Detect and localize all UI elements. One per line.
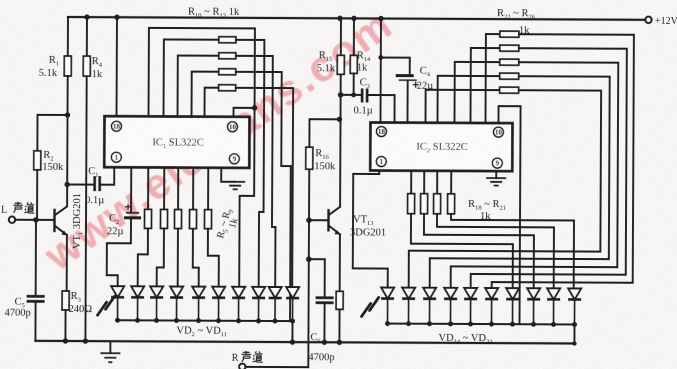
wire row D left xyxy=(192,72,219,117)
resistor R1 xyxy=(64,56,71,76)
LED VD23 xyxy=(568,288,581,299)
resistor R23 xyxy=(500,45,519,51)
node LED bus riser bottom xyxy=(290,339,295,344)
node LED bus junction xyxy=(290,319,295,324)
LED VD6 xyxy=(192,287,205,298)
node C6 bottom xyxy=(322,340,327,345)
wire R20 to LED xyxy=(437,214,554,289)
resistor R16 xyxy=(306,147,313,169)
wire R2 bottom to input xyxy=(36,170,38,220)
LED VD3 xyxy=(131,286,144,297)
LED VD15 xyxy=(402,288,415,299)
wire LED bus to bottom bus xyxy=(291,321,293,342)
LED VD4 xyxy=(150,286,163,297)
LED VD11 xyxy=(286,287,299,298)
wire IC2 pin to R20 xyxy=(436,171,438,194)
node LED bus junction right xyxy=(510,322,515,327)
wire IC2 pin to LED VD14 xyxy=(353,170,389,287)
node LED bus junction xyxy=(273,319,278,324)
node LED bus junction right xyxy=(572,322,577,327)
resistor R25 xyxy=(500,73,519,79)
wire R1 to collector xyxy=(66,76,69,206)
node LED bus junction xyxy=(174,318,179,323)
node pin10/rowA xyxy=(252,105,257,110)
wire IC1 pin9 to ground xyxy=(221,168,235,182)
LED VD17 xyxy=(444,288,457,299)
node collector/R16 xyxy=(337,117,342,122)
node LED bus junction xyxy=(216,318,221,323)
ground symbol IC1 xyxy=(225,182,245,190)
node LED bus junction xyxy=(135,318,140,323)
ground symbol IC2 xyxy=(486,178,506,186)
wire row C left xyxy=(178,56,219,117)
wire R22 right loop to LED xyxy=(492,34,634,289)
wire C4 top lead xyxy=(381,58,410,75)
wire IC1 pin to R6 xyxy=(163,167,165,209)
resistor R12 xyxy=(219,69,236,75)
IC2 pin 18 circle xyxy=(376,127,386,137)
LED VD8 xyxy=(232,287,245,298)
node right bus corner xyxy=(572,341,576,345)
IC2 pin 1 circle xyxy=(376,157,386,167)
node LED bus junction right xyxy=(427,321,432,326)
transistor VT1 collector xyxy=(55,206,67,215)
capacitor C6 xyxy=(316,298,334,303)
wire R input riser xyxy=(307,259,310,367)
resistor R18 xyxy=(408,194,415,214)
node top bus / R4 xyxy=(84,14,89,19)
terminal L channel input xyxy=(9,217,15,223)
wire R18 to LED xyxy=(411,214,513,288)
wire IC2 pin9 to ground xyxy=(495,171,497,178)
wire IC2 pin to R18 xyxy=(410,171,412,194)
terminal R channel input xyxy=(239,364,245,369)
LED light arrows left xyxy=(98,296,115,315)
transistor VT1 emitter arrow xyxy=(62,231,67,235)
capacitor C5 xyxy=(27,296,45,301)
resistor R26 xyxy=(500,87,519,93)
LED VD20 xyxy=(506,288,519,299)
op-amp IC1 SL322C box xyxy=(104,116,249,168)
transistor VT13 base bar xyxy=(327,210,329,230)
wire R input to riser xyxy=(245,366,308,368)
resistor R20 xyxy=(434,194,441,214)
wire C1 to IC1 pin1 xyxy=(101,167,114,185)
LED VD19 xyxy=(485,288,498,299)
wire R23 right loop to LED xyxy=(471,48,627,289)
resistor R17 xyxy=(336,291,343,309)
wire collector to C3 node xyxy=(339,95,342,206)
wire R26 left lead to IC2 xyxy=(425,90,499,123)
capacitor C1 xyxy=(95,176,100,191)
wire row C right to LED VD9 xyxy=(235,56,277,287)
node LED bus junction xyxy=(115,318,120,323)
wire IC1 pin10 stub xyxy=(234,108,255,117)
wire input to base xyxy=(15,219,54,221)
wire riser to base node xyxy=(308,220,310,259)
wire IC1 pin to R8 xyxy=(192,168,194,210)
wire R7 to LED VD4 xyxy=(177,229,179,287)
node LED bus junction right xyxy=(385,321,390,326)
wire bus to R14 xyxy=(353,18,355,55)
resistor R24 xyxy=(500,59,519,65)
node LED bus junction xyxy=(236,318,241,323)
IC2 pin 9 circle xyxy=(492,158,502,168)
terminal +12V xyxy=(645,17,651,23)
wire R3 to bottom bus xyxy=(64,310,66,341)
wire bottom ground bus xyxy=(35,341,574,344)
resistor R8 xyxy=(189,210,196,229)
resistor R15 xyxy=(337,55,344,74)
node LED bus junction right xyxy=(531,322,536,327)
node LED bus junction right xyxy=(551,322,556,327)
wire bus to R4 xyxy=(86,17,88,56)
wire IC2 pin to R19 xyxy=(423,171,425,194)
wire row B right to LED VD8 xyxy=(235,40,265,287)
LED VD21 xyxy=(527,288,540,299)
node R input / C6 xyxy=(306,256,312,262)
resistor R13 xyxy=(219,85,236,91)
node LED bus junction right xyxy=(406,321,411,326)
wire collector to C1 xyxy=(67,183,93,185)
wire R4 to bottom bus xyxy=(85,76,86,341)
wire C3 left xyxy=(341,94,361,96)
wire R5 to LED VD2 xyxy=(138,228,148,286)
wire R23 left lead to IC2 xyxy=(470,48,499,123)
wire row E left xyxy=(205,88,219,117)
node LED bus junction xyxy=(154,318,159,323)
resistor R7 xyxy=(174,210,181,229)
resistor R6 xyxy=(160,209,167,228)
wire R2 top to collector column xyxy=(37,115,67,151)
wire R15 to bus xyxy=(340,18,342,55)
wire R24 right loop to LED xyxy=(451,62,619,289)
node R14/C3 wire xyxy=(351,92,356,97)
wire R17 to bottom bus xyxy=(338,309,340,342)
capacitor C2 xyxy=(126,212,139,214)
IC2 pin 10 circle xyxy=(493,127,503,137)
IC1 pin 9 circle xyxy=(229,154,239,164)
scan paper noise overlay xyxy=(0,0,1,1)
resistor R5 xyxy=(144,209,151,228)
wire IC1 pin to R9 xyxy=(207,168,209,210)
wire emitter to R3 xyxy=(66,235,68,291)
wire R21 to LED xyxy=(451,214,574,289)
resistor R9 xyxy=(204,210,211,229)
resistor R14 xyxy=(350,55,357,73)
node R2 top junction xyxy=(65,112,70,117)
wire C5 to bottom bus xyxy=(34,302,36,340)
wire base node up to R16 xyxy=(308,169,310,220)
node R17 bottom xyxy=(337,340,342,345)
wire row E right down xyxy=(235,88,293,287)
wire +12V top bus xyxy=(68,17,645,20)
IC1 pin 18 circle xyxy=(111,121,121,131)
wire R24 left lead to IC2 xyxy=(454,62,499,123)
wire C4 to IC2 pin xyxy=(406,81,408,123)
LED VD2 xyxy=(111,286,124,297)
resistor R2 xyxy=(34,151,41,170)
wire IC2 pin to R21 xyxy=(450,171,452,194)
wire R25 left lead to IC2 xyxy=(437,76,499,123)
node top bus / R15 xyxy=(337,16,342,21)
transistor VT13 emitter xyxy=(329,226,340,235)
node top bus / IC2 Vcc xyxy=(378,16,383,21)
node C4 tap xyxy=(378,55,383,60)
wire R6 to LED VD3 xyxy=(157,228,164,286)
wire node to C6 xyxy=(309,259,325,297)
wire IC1 pin to R5 xyxy=(147,167,149,209)
LED VD9 xyxy=(252,287,265,298)
node LED bus junction right xyxy=(448,321,453,326)
wire R19 to LED xyxy=(424,214,534,289)
wire C2 to LED VD2 anode xyxy=(107,220,131,287)
wire bus to R1 xyxy=(67,17,69,56)
resistor R10 xyxy=(219,37,236,43)
resistor R21 xyxy=(448,194,455,214)
LED VD14 xyxy=(381,288,394,299)
wire R25 right loop to LED xyxy=(430,76,610,289)
LED VD5 xyxy=(170,287,183,298)
node base/R16 xyxy=(306,217,312,223)
capacitor C4 xyxy=(396,74,414,77)
wire R26 right loop to LED xyxy=(409,90,601,289)
wire LED cathode bus left xyxy=(118,319,293,322)
capacitor C3 xyxy=(362,88,367,102)
IC1 pin 10 circle xyxy=(227,122,237,132)
transistor VT1 emitter xyxy=(55,226,67,235)
wire R8 to LED VD5 xyxy=(193,229,199,287)
wire bus to IC1 pin18 xyxy=(116,17,118,116)
wire LED cathode bus right xyxy=(388,323,575,326)
wire IC1 pin2 to C2 xyxy=(130,167,132,211)
node C3/R15/R14 junction xyxy=(338,92,344,98)
node LED bus junction right xyxy=(489,322,494,327)
wire base wire VT13 xyxy=(309,219,328,221)
wire bus to IC2 pin18 xyxy=(379,19,382,123)
wire R22 left lead to IC2 xyxy=(485,34,499,123)
wire bus to ground xyxy=(109,341,111,353)
wire C3 to IC2 pin xyxy=(368,95,394,123)
node R3 bottom xyxy=(63,338,68,343)
wire R9 to LED VD6 xyxy=(208,229,219,287)
transistor VT13 collector xyxy=(329,207,340,215)
transistor VT1 base bar xyxy=(53,210,56,231)
node LED bus junction xyxy=(196,318,201,323)
resistor R3 xyxy=(62,291,69,310)
resistor R22 xyxy=(500,31,519,37)
node input/R2/C5 xyxy=(33,217,39,223)
wire R16 top jog to collector column xyxy=(309,119,339,147)
op-amp IC2 SL322C box xyxy=(370,122,512,171)
LED VD10 xyxy=(269,287,282,298)
node R4 bottom xyxy=(83,338,88,343)
wire row D right to LED VD10 xyxy=(235,72,292,321)
resistor R4 xyxy=(83,56,90,76)
wire input node to C5 xyxy=(35,220,37,295)
ground symbol left xyxy=(100,353,120,362)
resistor R19 xyxy=(421,194,428,214)
wire row B left xyxy=(164,39,219,116)
wire IC1 pin to R7 xyxy=(177,168,179,210)
capacitor C4 plus sign xyxy=(413,82,419,88)
wire C3 node to R15 xyxy=(340,74,342,94)
LED VD16 xyxy=(423,288,436,299)
capacitor C2 plus sign xyxy=(125,204,131,210)
wire IC2 pin10 bridge xyxy=(498,106,521,324)
node top bus / IC1 Vcc xyxy=(114,15,119,20)
wire row A (pin-IC1 top loop, no resistor) xyxy=(148,28,255,287)
wire C6 to bottom bus xyxy=(323,304,325,342)
node LED bus junction right xyxy=(468,321,473,326)
transistor VT13 emitter arrow xyxy=(335,230,340,234)
wire emitter to R17 xyxy=(339,234,341,291)
IC1 pin 1 circle xyxy=(111,152,121,162)
wire right LED bus to bottom bus xyxy=(573,324,575,343)
resistor R11 xyxy=(219,53,236,59)
node top bus / R14 xyxy=(351,16,356,21)
LED VD7 xyxy=(212,287,225,298)
LED light arrows right xyxy=(362,297,379,316)
LED VD18 xyxy=(464,288,477,299)
node collector / C1 xyxy=(64,182,69,187)
LED VD22 xyxy=(547,288,560,299)
wire R14 to C3 node xyxy=(353,73,355,94)
node LED bus junction xyxy=(256,318,261,323)
